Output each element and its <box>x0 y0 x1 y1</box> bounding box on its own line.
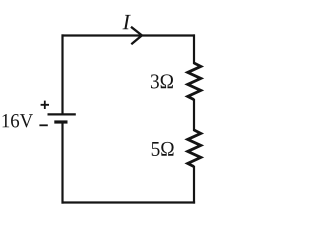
resistor R2 zigzag (5 ohm) <box>188 130 201 167</box>
current arrow on top wire <box>131 27 142 44</box>
battery V1 long plate (+) <box>48 113 76 115</box>
svg-text:I: I <box>122 9 132 34</box>
wire right upper <box>193 34 195 64</box>
wire bottom <box>62 201 196 203</box>
minus sign <box>39 124 47 126</box>
wire right middle <box>193 99 195 131</box>
battery V1 short plate (-) <box>54 120 67 123</box>
svg-text:3Ω: 3Ω <box>150 69 174 93</box>
wire left upper (above battery) <box>61 34 63 114</box>
svg-text:16V: 16V <box>1 110 34 132</box>
resistor R1 zigzag (3 ohm) <box>188 63 201 100</box>
wire right lower <box>193 166 195 204</box>
plus sign <box>41 101 49 109</box>
wire top <box>62 34 196 36</box>
svg-text:5Ω: 5Ω <box>151 137 175 161</box>
wire left lower (below battery) <box>61 122 63 204</box>
